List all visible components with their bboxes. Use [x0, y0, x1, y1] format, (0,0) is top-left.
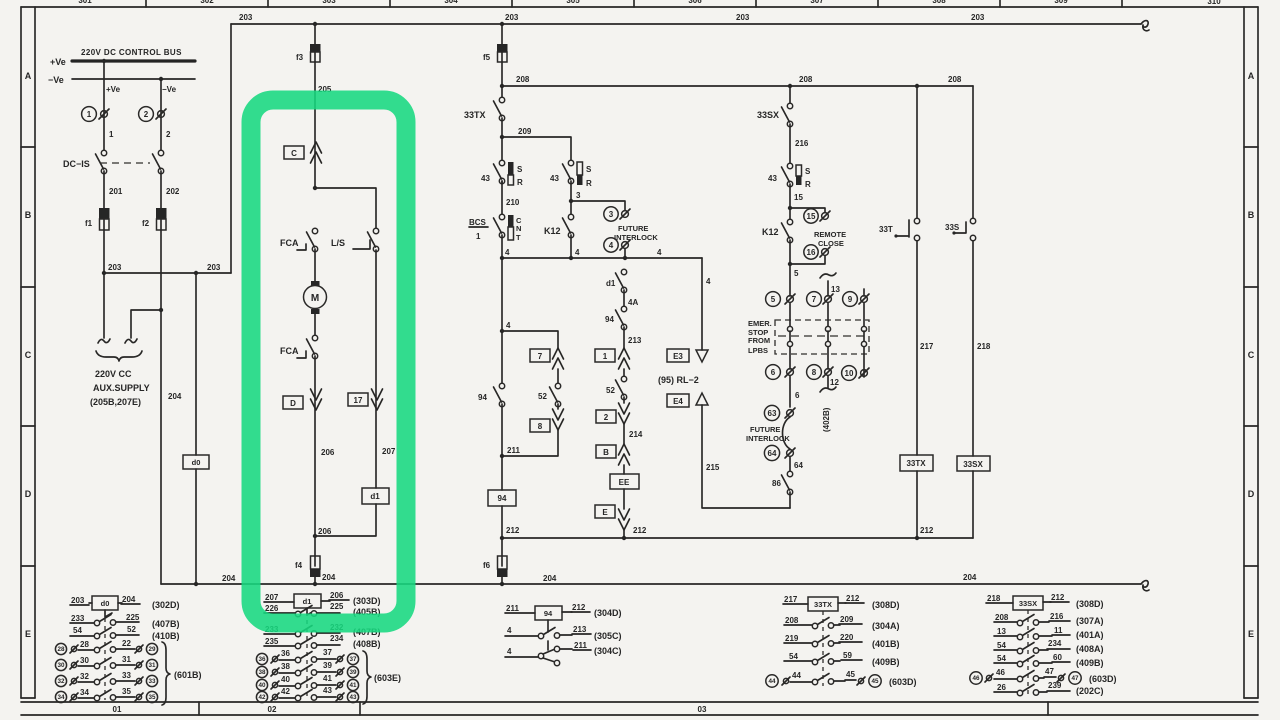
row d0 302D: [70, 595, 180, 610]
svg-text:2: 2: [604, 413, 609, 422]
row 408A: [994, 639, 1104, 654]
svg-text:209: 209: [518, 127, 532, 136]
svg-text:(304D): (304D): [594, 608, 622, 618]
coil designation box 17: [348, 393, 368, 406]
row 307A: [994, 612, 1104, 626]
svg-text:33S: 33S: [945, 223, 960, 232]
svg-text:4: 4: [506, 321, 511, 330]
wire down to 215 corner: [789, 492, 791, 508]
off-page arrow up E4: [696, 393, 708, 405]
svg-text:234: 234: [330, 634, 344, 643]
actuator dashed right block 2: [1027, 610, 1029, 697]
svg-text:39: 39: [323, 661, 332, 670]
svg-text:203: 203: [108, 263, 122, 272]
labels +Ve / -Ve under buses: [106, 85, 177, 94]
terminal 5 circled: [766, 292, 795, 307]
svg-text:203: 203: [971, 13, 985, 22]
svg-text:4: 4: [657, 248, 662, 257]
limit contact FCA upper: [280, 228, 318, 251]
svg-text:S: S: [517, 165, 523, 174]
node on -Ve bus: [159, 77, 163, 81]
wire f6 to 204 bus: [500, 577, 504, 586]
svg-text:B: B: [25, 210, 32, 220]
svg-text:B: B: [1248, 210, 1255, 220]
svg-text:(401B): (401B): [872, 639, 900, 649]
wire 205: [315, 62, 332, 188]
svg-text:212: 212: [1051, 593, 1065, 602]
labels 4 on bus: [505, 248, 662, 257]
tag box E3: [667, 349, 689, 362]
closing travel chevron up: [311, 142, 322, 163]
svg-text:220V DC CONTROL BUS: 220V DC CONTROL BUS: [81, 48, 182, 57]
svg-text:FCA: FCA: [280, 238, 299, 248]
svg-text:(408B): (408B): [353, 639, 381, 649]
dashed mechanical link DC-IS: [100, 162, 150, 164]
svg-text:31: 31: [148, 662, 156, 669]
svg-text:204: 204: [168, 392, 182, 401]
row 42-43: [256, 686, 358, 703]
svg-text:(409B): (409B): [872, 657, 900, 667]
svg-text:28: 28: [80, 640, 89, 649]
svg-text:4: 4: [507, 647, 512, 656]
svg-text:306: 306: [688, 0, 702, 5]
terminal 4 circled: [604, 238, 630, 252]
svg-text:301: 301: [78, 0, 92, 5]
svg-text:11: 11: [1054, 626, 1063, 635]
svg-text:(302D): (302D): [152, 600, 180, 610]
svg-text:220V CC: 220V CC: [95, 369, 132, 379]
svg-text:213: 213: [573, 625, 587, 634]
wire f6 feed: [501, 538, 503, 556]
svg-text:8: 8: [812, 368, 817, 377]
contact d1: [606, 269, 627, 292]
aux supply squiggle terminal 1: [98, 339, 110, 343]
svg-text:E: E: [1248, 629, 1254, 639]
wire to 52 contact: [623, 369, 625, 379]
svg-text:211: 211: [574, 641, 587, 650]
svg-text:36: 36: [281, 649, 290, 658]
node dots on lower 203: [102, 271, 106, 275]
svg-text:E4: E4: [673, 397, 683, 406]
row 44-45 603D: [766, 670, 917, 687]
svg-text:42: 42: [258, 694, 266, 701]
svg-text:33SX: 33SX: [757, 110, 779, 120]
arc link 63 to 64: [783, 417, 791, 449]
svg-text:44: 44: [792, 671, 801, 680]
svg-text:(308D): (308D): [872, 600, 900, 610]
svg-text:218: 218: [977, 342, 991, 351]
svg-text:15: 15: [794, 193, 803, 202]
svg-text:(303D): (303D): [353, 596, 381, 606]
svg-text:212: 212: [846, 594, 860, 603]
svg-text:32: 32: [80, 672, 89, 681]
svg-text:(205B,207E): (205B,207E): [90, 397, 141, 407]
label FUTURE INTERLOCK right: [746, 425, 790, 443]
svg-text:AUX.SUPPLY: AUX.SUPPLY: [93, 383, 150, 393]
wire node 3: [569, 181, 581, 217]
svg-text:33: 33: [148, 678, 156, 685]
wire f5 down: [501, 62, 503, 100]
svg-text:(304A): (304A): [872, 621, 900, 631]
svg-text:33SX: 33SX: [963, 460, 983, 469]
terminal 9 circled: [843, 292, 869, 307]
svg-text:54: 54: [789, 652, 798, 661]
svg-text:INTERLOCK: INTERLOCK: [614, 233, 658, 242]
wire 64: [790, 457, 803, 474]
wire d0 column: [195, 273, 197, 584]
svg-text:(305C): (305C): [594, 631, 622, 641]
svg-text:43: 43: [349, 694, 357, 701]
svg-text:303: 303: [322, 0, 336, 5]
node branch to L/S: [313, 186, 317, 190]
svg-text:30: 30: [57, 662, 65, 669]
contact 43 S/R right: [768, 163, 811, 189]
svg-text:33T: 33T: [879, 225, 893, 234]
svg-text:43: 43: [768, 174, 777, 183]
svg-text:28: 28: [57, 646, 65, 653]
svg-text:K12: K12: [544, 226, 561, 236]
svg-text:211: 211: [507, 446, 520, 455]
svg-text:215: 215: [706, 463, 720, 472]
svg-text:54: 54: [73, 626, 82, 635]
svg-text:35: 35: [148, 694, 156, 701]
terminal 64 circled: [764, 445, 795, 460]
svg-text:41: 41: [323, 674, 332, 683]
coil designation box D: [283, 396, 303, 409]
svg-text:+Ve: +Ve: [50, 57, 66, 67]
row 304A: [784, 615, 900, 631]
relay box EE: [610, 474, 639, 489]
svg-text:EMER.: EMER.: [748, 319, 772, 328]
svg-text:40: 40: [281, 675, 290, 684]
wire motor to FCA lower: [314, 314, 316, 338]
label REMOTE CLOSE: [814, 230, 846, 248]
branch 209 to second column: [502, 137, 571, 163]
tag box E4: [667, 394, 689, 407]
node stub 4 to 52 branch: [500, 321, 558, 349]
svg-text:32: 32: [57, 678, 65, 685]
svg-text:47: 47: [1071, 675, 1079, 682]
svg-text:217: 217: [920, 342, 934, 351]
wire 212 bus: [502, 537, 973, 539]
svg-text:M: M: [311, 293, 319, 304]
row d1 303D: [264, 591, 381, 608]
svg-text:(202C): (202C): [1076, 686, 1104, 696]
row 408B: [264, 634, 381, 649]
contact 94 left: [478, 383, 505, 406]
svg-text:54: 54: [997, 641, 1006, 650]
svg-text:39: 39: [349, 669, 357, 676]
row 33SX 308D: [986, 593, 1104, 610]
coil designation box C: [284, 146, 304, 159]
svg-text:7: 7: [812, 295, 817, 304]
wire aux terminal 2 to f2 line: [131, 308, 163, 338]
green highlight box: [251, 100, 406, 623]
svg-text:4: 4: [609, 241, 614, 250]
labels 203 on top bus: [239, 13, 985, 22]
labels 208 right: [799, 75, 962, 84]
svg-text:16: 16: [807, 248, 816, 257]
svg-text:208: 208: [799, 75, 813, 84]
wire 217 column: [917, 86, 934, 351]
stub above terminal 9: [863, 289, 865, 296]
contact BCS/1 with CNT: [469, 214, 522, 258]
svg-text:(95) RL−2: (95) RL−2: [658, 375, 699, 385]
wire 208 bus: [502, 85, 973, 87]
svg-text:33: 33: [122, 671, 131, 680]
row 410B: [70, 625, 180, 641]
row 33TX 308D: [783, 594, 900, 611]
svg-text:204: 204: [322, 573, 336, 582]
svg-text:(402B): (402B): [822, 407, 831, 432]
wire d1 to junction 206: [315, 504, 376, 536]
row 409B: [784, 651, 900, 667]
svg-text:43: 43: [481, 174, 490, 183]
link ticks: [790, 331, 864, 341]
contact 52 left: [538, 383, 561, 406]
svg-text:214: 214: [629, 430, 643, 439]
svg-text:38: 38: [281, 662, 290, 671]
contact 43 S/R first: [481, 160, 523, 187]
svg-text:46: 46: [972, 675, 980, 682]
row 40-41: [256, 674, 358, 691]
svg-text:(603D): (603D): [889, 677, 917, 687]
wire 218 to coil: [972, 241, 974, 456]
svg-text:f3: f3: [296, 53, 304, 62]
svg-text:5: 5: [794, 269, 799, 278]
svg-text:(304C): (304C): [594, 646, 622, 656]
svg-text:225: 225: [126, 613, 140, 622]
svg-text:43: 43: [323, 686, 332, 695]
wire f4 to 204 bus: [313, 573, 336, 586]
latch mark under d1: [307, 608, 314, 615]
svg-text:13: 13: [997, 627, 1006, 636]
svg-text:59: 59: [843, 651, 852, 660]
svg-text:13: 13: [831, 285, 840, 294]
svg-text:4: 4: [507, 626, 512, 635]
svg-text:E: E: [25, 629, 31, 639]
terminal 15 circled: [804, 209, 830, 223]
zone letters right border: [1248, 71, 1255, 639]
wire 218 column: [973, 86, 991, 351]
labels 212 on bus: [633, 526, 934, 535]
chevron up at 1: [619, 348, 630, 369]
wire 33TX to 212 bus: [915, 471, 919, 540]
svg-text:94: 94: [478, 393, 487, 402]
dashed actuator column 01 block: [104, 610, 106, 700]
relay coil 33SX box: [957, 456, 990, 471]
chevron up at B: [619, 444, 630, 465]
svg-text:44: 44: [768, 678, 776, 685]
svg-text:212: 212: [633, 526, 647, 535]
svg-text:BCS: BCS: [469, 218, 487, 227]
svg-text:310: 310: [1207, 0, 1221, 6]
wire EE to 212 bus: [622, 489, 626, 540]
svg-text:86: 86: [772, 479, 781, 488]
wire 206 upper: [315, 356, 335, 536]
fuse f3: [296, 44, 321, 62]
wire 203 top bus: [231, 21, 1149, 31]
svg-text:218: 218: [987, 594, 1001, 603]
wire from +Ve down: [103, 61, 105, 150]
svg-text:5: 5: [771, 295, 776, 304]
svg-text:207: 207: [382, 447, 396, 456]
chevron down at E: [619, 509, 630, 530]
svg-text:A: A: [25, 71, 32, 81]
chevron up branch 52: [553, 348, 564, 369]
svg-text:94: 94: [498, 494, 507, 503]
svg-text:T: T: [516, 233, 521, 242]
terminal 8 circled: [807, 365, 833, 380]
svg-text:33SX: 33SX: [1019, 599, 1037, 608]
branch to terminal 15: [790, 208, 825, 212]
contact 52 right: [606, 376, 627, 399]
svg-text:206: 206: [318, 527, 332, 536]
row 30-31: [55, 655, 157, 671]
svg-text:233: 233: [71, 614, 85, 623]
wire 214: [624, 397, 643, 444]
coil box B: [596, 445, 616, 458]
svg-text:−Ve: −Ve: [162, 85, 177, 94]
svg-text:1: 1: [109, 130, 114, 139]
svg-text:36: 36: [258, 656, 266, 663]
svg-text:52: 52: [127, 625, 136, 634]
svg-text:d1: d1: [303, 597, 312, 606]
wire 217 to coil: [916, 241, 918, 455]
svg-text:8: 8: [538, 422, 543, 431]
motor M: [304, 281, 327, 314]
svg-text:01: 01: [113, 705, 122, 714]
aux contact 33TX: [464, 97, 505, 120]
svg-text:209: 209: [840, 615, 854, 624]
svg-text:42: 42: [281, 687, 290, 696]
wire 216: [790, 124, 809, 166]
svg-text:307: 307: [810, 0, 824, 5]
row 405B partially hidden: [264, 602, 381, 617]
wire 4 corner down: [702, 258, 711, 350]
row 32-33: [55, 671, 157, 687]
svg-text:225: 225: [330, 602, 344, 611]
svg-text:211: 211: [506, 604, 519, 613]
svg-text:37: 37: [323, 648, 332, 657]
svg-text:206: 206: [330, 591, 344, 600]
svg-text:201: 201: [109, 187, 123, 196]
wire f1 to 203 bus: [103, 230, 105, 273]
wire node 15: [788, 184, 804, 222]
svg-text:204: 204: [543, 574, 557, 583]
wire terminal 4 to bus: [624, 249, 626, 258]
contact 43 S/R second: [550, 160, 592, 188]
svg-text:S: S: [586, 165, 592, 174]
svg-text:FUTURE: FUTURE: [618, 224, 648, 233]
node dots on 208 bus: [788, 84, 792, 88]
row 401B: [784, 633, 900, 649]
svg-text:15: 15: [807, 212, 816, 221]
svg-text:(410B): (410B): [152, 631, 180, 641]
wire 33SX to 212 bus corner: [972, 471, 974, 538]
svg-text:(407B): (407B): [152, 619, 180, 629]
+Ve bus: [50, 57, 195, 67]
svg-text:REMOTE: REMOTE: [814, 230, 846, 239]
wire from 203 bus to fuse f5: [501, 24, 503, 44]
svg-text:208: 208: [995, 613, 1009, 622]
chevron down at 2: [619, 403, 630, 424]
svg-text:204: 204: [122, 595, 136, 604]
svg-text:A: A: [1248, 71, 1255, 81]
svg-text:f4: f4: [295, 561, 303, 570]
svg-text:207: 207: [265, 593, 279, 602]
svg-text:(308D): (308D): [1076, 599, 1104, 609]
svg-text:41: 41: [349, 682, 357, 689]
svg-text:235: 235: [265, 637, 279, 646]
pushbutton pole 2: [825, 303, 830, 369]
row 305C: [505, 625, 622, 641]
relay contact d1 box: [362, 488, 389, 504]
fuse f5: [483, 44, 508, 62]
svg-text:309: 309: [1054, 0, 1068, 5]
latch mark under d0: [105, 610, 112, 617]
svg-text:(307A): (307A): [1076, 616, 1104, 626]
wire 215 down and over to 86: [702, 405, 790, 508]
svg-text:FCA: FCA: [280, 346, 299, 356]
svg-text:210: 210: [506, 198, 520, 207]
terminal 1 circled: [82, 107, 109, 122]
aux supply squiggle terminal 2: [125, 339, 137, 343]
contact 94: [605, 306, 627, 329]
svg-text:R: R: [805, 180, 811, 189]
svg-text:63: 63: [768, 409, 777, 418]
row 409B far: [994, 653, 1104, 668]
svg-text:216: 216: [1050, 612, 1064, 621]
svg-text:203: 203: [505, 13, 519, 22]
node on +Ve bus: [102, 59, 106, 63]
svg-text:R: R: [517, 178, 523, 187]
dashed enclosure LPBS: [775, 320, 869, 354]
riser to top 203 bus: [230, 24, 232, 273]
svg-text:30: 30: [80, 656, 89, 665]
svg-text:C: C: [25, 350, 32, 360]
svg-text:(601B): (601B): [174, 670, 202, 680]
contact K12 left: [544, 214, 574, 258]
svg-text:C: C: [1248, 350, 1255, 360]
svg-text:204: 204: [222, 574, 236, 583]
limit contact FCA lower: [280, 335, 318, 358]
svg-text:212: 212: [572, 603, 586, 612]
svg-text:(408A): (408A): [1076, 644, 1104, 654]
svg-text:204: 204: [963, 573, 977, 582]
svg-text:E3: E3: [673, 352, 683, 361]
svg-text:d0: d0: [101, 599, 110, 608]
svg-text:33TX: 33TX: [464, 110, 486, 120]
svg-text:220: 220: [840, 633, 854, 642]
svg-text:E: E: [602, 508, 608, 517]
coil box 7: [530, 349, 550, 362]
wire 4A: [624, 290, 638, 309]
row 202C: [994, 681, 1104, 696]
svg-text:203: 203: [71, 596, 85, 605]
wire 6: [790, 376, 800, 407]
svg-text:38: 38: [258, 669, 266, 676]
-Ve bus: [48, 75, 195, 85]
coil box 8: [530, 419, 550, 432]
row 34-35: [55, 687, 157, 703]
svg-text:1: 1: [87, 110, 92, 119]
svg-text:34: 34: [80, 688, 89, 697]
row 28-22-29: [55, 639, 157, 655]
row 407B: [70, 613, 180, 629]
chevron down branch 52: [553, 409, 564, 430]
row 304C changeover: [505, 641, 622, 666]
